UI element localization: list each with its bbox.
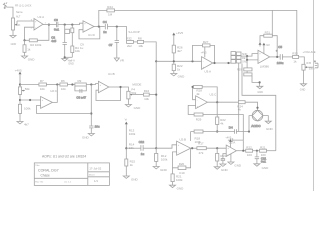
svg-text:1k: 1k	[130, 163, 134, 167]
wire fb to R21	[172, 168, 174, 185]
svg-text:R35: R35	[306, 62, 311, 65]
resistor R20	[178, 162, 186, 175]
svg-text:100k: 100k	[24, 107, 31, 111]
op-amp U3:B	[196, 93, 218, 109]
wire R22v	[216, 102, 218, 131]
svg-text:1k: 1k	[293, 60, 297, 64]
wire P1 to ground	[12, 30, 14, 36]
ground under R15	[123, 176, 138, 181]
ground under C8	[82, 134, 94, 140]
svg-text:R29: R29	[196, 118, 202, 122]
svg-text:GND: GND	[266, 127, 274, 131]
wire U2B out	[191, 147, 197, 149]
capacitor D4	[229, 125, 237, 133]
wire up to R24	[99, 10, 107, 26]
resistor R6	[60, 79, 68, 91]
svg-text:R8: R8	[138, 37, 142, 41]
label R28	[196, 89, 202, 96]
wire U2A pwr gnd	[230, 154, 232, 162]
resistor R19	[216, 148, 227, 167]
connector J3 send-return	[231, 52, 248, 64]
node VR cross	[125, 147, 127, 149]
wire U3A out	[213, 62, 231, 64]
wire C2 down	[64, 44, 66, 57]
svg-text:0u1: 0u1	[261, 160, 266, 164]
svg-text:1u: 1u	[141, 152, 145, 156]
wire C11	[256, 151, 258, 164]
svg-text:R2 100k: R2 100k	[30, 43, 42, 47]
resistor R22v	[216, 117, 226, 126]
capacitor C4	[103, 20, 108, 34]
svg-text:-: -	[197, 99, 198, 102]
wire U3B feedback top	[193, 87, 218, 101]
op-amp U2:C	[41, 89, 58, 108]
ground under R35	[300, 84, 307, 92]
wire R30 to ground	[252, 76, 260, 86]
wire bias mid to U2C	[20, 99, 41, 101]
node rail bias	[155, 60, 157, 62]
label C9	[80, 42, 84, 49]
wire R21b right	[267, 150, 276, 152]
resistor R22b	[246, 145, 253, 157]
wire bridge right to ground	[263, 116, 269, 122]
wire U4 feedback	[260, 36, 277, 57]
svg-text:100u: 100u	[277, 61, 284, 65]
potentiometer R5	[18, 87, 30, 95]
svg-text:R7: R7	[40, 79, 44, 83]
ground under R12	[153, 167, 167, 172]
resistor R10a	[194, 130, 203, 133]
svg-text:Sheet:: Sheet:	[89, 174, 96, 177]
node out join	[216, 101, 218, 103]
svg-text:U2:C: U2:C	[50, 89, 58, 93]
op-amp U1:B	[98, 72, 114, 93]
svg-text:U1:A: U1:A	[38, 15, 45, 19]
wire return to U4	[241, 54, 258, 57]
resistor R21b	[260, 145, 267, 157]
svg-text:R33: R33	[292, 52, 298, 56]
node bias top	[19, 83, 21, 85]
wire bias to R7	[20, 84, 39, 86]
resistor R22a	[172, 64, 183, 71]
wire rail to U3A	[156, 60, 201, 62]
capacitor C14	[221, 159, 225, 161]
ground under P2	[17, 122, 29, 127]
svg-text:C12: C12	[139, 140, 145, 144]
node feedback-left	[23, 39, 25, 41]
svg-text:4k: 4k	[238, 108, 242, 112]
resistor R33	[292, 52, 298, 64]
svg-text:10k: 10k	[144, 97, 149, 101]
svg-text:1/1: 1/1	[94, 179, 98, 183]
node lower chain	[216, 130, 218, 132]
power arrow fb	[259, 42, 262, 46]
node U4 out	[276, 56, 278, 58]
wire U1A out to C3	[43, 24, 56, 26]
node input tap	[29, 99, 31, 101]
ground under R4	[22, 56, 36, 61]
label R14	[129, 142, 135, 149]
svg-text:C4: C4	[103, 20, 107, 24]
svg-text:GND: GND	[131, 177, 139, 181]
svg-text:R31: R31	[265, 30, 271, 34]
wire R4 branch	[24, 40, 26, 56]
svg-text:Rev: file: Rev: file	[35, 182, 44, 184]
node connector in	[227, 62, 229, 64]
wire R6 to R9	[67, 84, 75, 86]
svg-text:-: -	[100, 90, 101, 93]
capacitor C5	[276, 45, 284, 65]
wire U1D feedback	[79, 27, 100, 39]
wire U2B feedback	[173, 148, 191, 168]
resistor R29 loop	[188, 105, 243, 140]
wire connector gnd rail	[238, 63, 240, 132]
capacitor C15	[228, 138, 236, 142]
ground bridge	[265, 121, 273, 131]
svg-text:0u1: 0u1	[54, 28, 59, 32]
node U1A output	[48, 24, 50, 26]
svg-text:+4V5: +4V5	[15, 68, 22, 72]
svg-text:10u: 10u	[95, 124, 100, 128]
resistor R26	[172, 45, 183, 53]
wire R7 to R6	[46, 84, 60, 86]
capacitor C6 parallel loop	[75, 86, 87, 99]
svg-text:U3:A: U3:A	[204, 69, 211, 73]
svg-text:4u5: 4u5	[51, 39, 56, 43]
ground under P1	[10, 36, 16, 47]
svg-text:50k: 50k	[25, 87, 30, 91]
ground under R19	[214, 167, 228, 172]
output jack J2	[314, 61, 318, 68]
ground under P4	[125, 105, 141, 111]
wire R16 to rail	[149, 94, 156, 96]
wire J1 to P1	[7, 7, 13, 18]
capacitor C12	[139, 140, 145, 156]
wire long top net	[114, 10, 296, 55]
svg-text:9V: 9V	[266, 43, 270, 47]
svg-text:50K: 50K	[15, 23, 20, 27]
svg-text:VR: VR	[120, 58, 125, 62]
wire R34 to bridge	[245, 102, 257, 110]
svg-text:GND: GND	[262, 166, 270, 170]
svg-text:2: 2	[31, 27, 33, 29]
page border right	[313, 0, 315, 191]
net VR rail arrow	[125, 119, 128, 125]
resistor R8	[137, 37, 143, 48]
resistor R27	[201, 40, 210, 54]
svg-text:GND: GND	[178, 74, 186, 78]
capacitor C8	[89, 124, 100, 128]
node U1D output	[98, 25, 100, 27]
svg-text:R27: R27	[203, 40, 209, 44]
resistor R24	[107, 5, 115, 16]
wire C15 to U2A out rail	[236, 140, 244, 151]
resistor R17	[197, 141, 206, 154]
power +4V5 arrow	[15, 68, 22, 77]
wire U2A out	[236, 150, 245, 152]
wire U3A feedback	[193, 45, 215, 63]
power +4V5 arrow U2A	[225, 136, 232, 147]
op-amp U3:A	[202, 57, 213, 74]
wire wiper to jack	[308, 66, 313, 68]
svg-text:1u: 1u	[103, 30, 107, 34]
op-amp U4	[258, 50, 270, 68]
svg-text:4k7: 4k7	[177, 49, 182, 53]
ground under C14	[220, 164, 226, 166]
svg-text:GND: GND	[257, 91, 263, 94]
wire return rail to bottom chain	[242, 64, 276, 151]
node rail bottom	[155, 147, 157, 149]
svg-text:R32: R32	[126, 37, 132, 41]
power +4V5 arrow bias	[172, 31, 183, 38]
svg-text:10k: 10k	[138, 44, 143, 48]
svg-text:GND: GND	[134, 106, 142, 110]
svg-text:R17: R17	[198, 141, 204, 145]
svg-text:GND: GND	[221, 168, 229, 172]
svg-text:LM386: LM386	[260, 65, 270, 69]
svg-text:-: -	[203, 60, 204, 63]
svg-text:R24: R24	[107, 5, 113, 9]
node C7 tap	[116, 26, 118, 28]
net VR arrow	[114, 58, 125, 62]
wire R22b to R21b	[253, 150, 260, 152]
resistor R25	[194, 85, 203, 88]
wire C7 to VR	[116, 42, 118, 58]
resistor R32	[126, 37, 133, 48]
capacitor C7	[109, 41, 119, 48]
svg-text:S-LOOP: S-LOOP	[128, 30, 139, 34]
svg-text:MODE: MODE	[132, 82, 141, 86]
svg-text:C3: C3	[54, 18, 58, 22]
title block frame	[34, 163, 109, 186]
svg-text:rev. 1.1: rev. 1.1	[64, 181, 72, 184]
svg-text:100k: 100k	[129, 132, 136, 136]
node gnd join	[64, 56, 66, 58]
svg-text:1u: 1u	[80, 46, 84, 50]
svg-text:+: +	[276, 50, 278, 53]
node gnd join	[259, 81, 261, 83]
wire R33 to pot	[299, 57, 305, 64]
svg-text:Chase: Chase	[41, 173, 50, 177]
svg-text:GND: GND	[68, 63, 74, 66]
svg-text:R20: R20	[179, 162, 185, 166]
node bridge top	[256, 107, 258, 109]
node bias mid	[19, 99, 21, 101]
svg-text:10k: 10k	[40, 87, 45, 91]
capacitor C3	[54, 18, 59, 32]
resistor R3	[65, 28, 74, 33]
wire rail to U2B	[156, 145, 176, 148]
resistor R16	[144, 89, 150, 101]
wire P1 wiper to U1A	[17, 20, 34, 22]
capacitor C2	[51, 36, 67, 45]
ground under C11	[254, 164, 269, 170]
wire U4 out	[270, 56, 281, 58]
potentiometer P1	[11, 18, 20, 30]
wire rail down to C8	[90, 85, 92, 127]
wire C4 to bend	[108, 27, 127, 41]
svg-text:Name: Name	[16, 11, 23, 14]
svg-text:R16: R16	[144, 89, 150, 93]
wire U2C feedback	[37, 105, 92, 113]
wire R9 to U1B	[86, 83, 98, 86]
svg-text:1M: 1M	[108, 12, 113, 16]
capacitor C11	[255, 156, 267, 163]
svg-text:4k: 4k	[220, 122, 224, 126]
svg-text:1k: 1k	[27, 48, 31, 52]
node fb left	[192, 86, 194, 88]
wire drop to bridge	[249, 116, 252, 132]
svg-text:GND: GND	[82, 136, 90, 140]
node U4 minus tap	[246, 55, 248, 57]
svg-text:100k: 100k	[161, 157, 168, 161]
resistor R4	[23, 45, 31, 53]
wire R35 to ground	[303, 70, 305, 84]
wire C8 to ground	[90, 128, 92, 134]
ground U2A	[228, 162, 242, 167]
node C11 tap	[256, 150, 258, 152]
svg-text:Vr: Vr	[125, 119, 128, 122]
wire lower chain	[191, 132, 249, 142]
svg-text:AOPs: U1 and U2 are LM324: AOPs: U1 and U2 are LM324	[42, 155, 86, 159]
resistor R7	[39, 79, 47, 91]
resistor R21	[171, 174, 183, 182]
label R18	[195, 137, 202, 144]
svg-text:AC/DC: AC/DC	[251, 124, 261, 128]
svg-text:GND: GND	[28, 57, 36, 61]
node bridge drop	[248, 130, 250, 132]
wire U2A minus cap	[223, 154, 226, 164]
svg-text:U2:B: U2:B	[179, 137, 186, 141]
svg-text:D4: D4	[229, 125, 233, 129]
wire to C7	[116, 27, 118, 41]
wire C5 to R33	[282, 56, 292, 58]
wire bias divider	[173, 38, 175, 74]
op-amp U1:A	[31, 15, 47, 30]
svg-text:GND: GND	[160, 168, 168, 172]
wire R15 to ground	[125, 166, 127, 176]
wire minus to R30	[244, 60, 247, 75]
potentiometer P4	[127, 88, 137, 99]
node minus	[246, 59, 248, 61]
resistor R12	[155, 148, 168, 166]
wire wiper to R16	[133, 94, 144, 96]
svg-text:R21: R21	[260, 145, 266, 149]
label R13	[129, 129, 136, 136]
svg-text:U2:C: U2:C	[210, 93, 218, 97]
resistor P2	[18, 104, 31, 113]
svg-text:1k: 1k	[177, 68, 181, 72]
svg-text:4k7: 4k7	[24, 122, 29, 126]
wire P4 to ground	[127, 99, 129, 105]
node C2 tap	[64, 24, 66, 26]
wire join to ground	[65, 56, 73, 58]
svg-text:C6 n47: C6 n47	[76, 95, 86, 99]
wire U3B out	[207, 101, 238, 103]
svg-text:GND: GND	[177, 186, 185, 190]
op-amp U1:D	[83, 21, 96, 37]
svg-text:Title:: Title:	[35, 164, 40, 167]
wire VR rail	[125, 125, 127, 159]
wire R17 to U2A	[206, 147, 226, 149]
resistor R15	[125, 159, 136, 167]
wire U1B out	[109, 87, 128, 91]
ground under R22a	[171, 74, 185, 79]
node out join	[213, 62, 215, 64]
ground under R30	[257, 86, 263, 94]
resistor R2	[29, 39, 42, 47]
resistor R9	[75, 79, 86, 86]
node R6 left	[56, 83, 58, 85]
resistor R30	[237, 68, 252, 72]
bridge rectifier BR1	[251, 110, 263, 128]
svg-text:10k: 10k	[61, 87, 66, 91]
svg-text:FR (1-1) JACK: FR (1-1) JACK	[15, 5, 32, 8]
svg-text:CORAL DG7: CORAL DG7	[38, 169, 59, 173]
node R9 left	[71, 83, 73, 85]
node rail mode	[155, 94, 157, 96]
op-amp U2:A	[226, 141, 236, 157]
svg-text:100: 100	[247, 153, 252, 157]
potentiometer R35 volume	[302, 62, 315, 70]
resistor R34	[237, 101, 245, 112]
wire U1B follower feedback	[96, 87, 121, 101]
wire U2C out up	[52, 85, 57, 103]
svg-text:R30: R30	[237, 69, 242, 72]
svg-text:100k: 100k	[176, 178, 183, 182]
svg-text:R6: R6	[61, 79, 65, 83]
svg-text:2k2: 2k2	[127, 44, 132, 48]
op-amp U2:B	[177, 137, 191, 155]
svg-text:+4V5: +4V5	[225, 136, 232, 139]
node U3A fb left	[191, 60, 193, 62]
svg-text:+4V5: +4V5	[176, 31, 183, 35]
svg-text:GND: GND	[11, 43, 17, 46]
wire U1D out	[94, 26, 105, 28]
wire R8 to main rail	[144, 42, 157, 148]
wire to C2	[64, 25, 66, 43]
svg-text:4k: 4k	[196, 92, 200, 96]
svg-text:GND: GND	[300, 88, 306, 91]
wire P2 to ground	[19, 113, 21, 121]
ground stage1	[62, 59, 75, 66]
node long rail top	[90, 83, 92, 85]
wire branch to R31	[271, 10, 273, 35]
ground under R21	[170, 185, 185, 190]
node U2B out	[191, 147, 193, 149]
wire C12 to rail	[143, 147, 156, 149]
svg-text:-: -	[178, 151, 179, 154]
power +9V arrow U4	[262, 43, 269, 54]
wire U1A feedback	[25, 25, 49, 41]
wire +4V5 to divider	[19, 77, 21, 104]
svg-text:1: 1	[45, 22, 47, 24]
svg-text:ALT: ALT	[16, 16, 21, 19]
svg-text:47k: 47k	[199, 151, 204, 155]
node feedback join	[90, 112, 92, 114]
node R19 tap	[216, 147, 218, 149]
svg-text:-: -	[42, 105, 43, 108]
svg-text:R9: R9	[78, 79, 82, 83]
svg-text:+4V5: +4V5	[201, 51, 208, 54]
node R3 tap	[71, 24, 73, 26]
node U1B output	[119, 86, 121, 88]
node bias tap	[173, 60, 175, 62]
svg-text:U1:B: U1:B	[108, 72, 115, 76]
resistor R4b	[71, 46, 81, 53]
svg-text:C7: C7	[109, 43, 113, 47]
svg-text:GND: GND	[234, 163, 242, 167]
